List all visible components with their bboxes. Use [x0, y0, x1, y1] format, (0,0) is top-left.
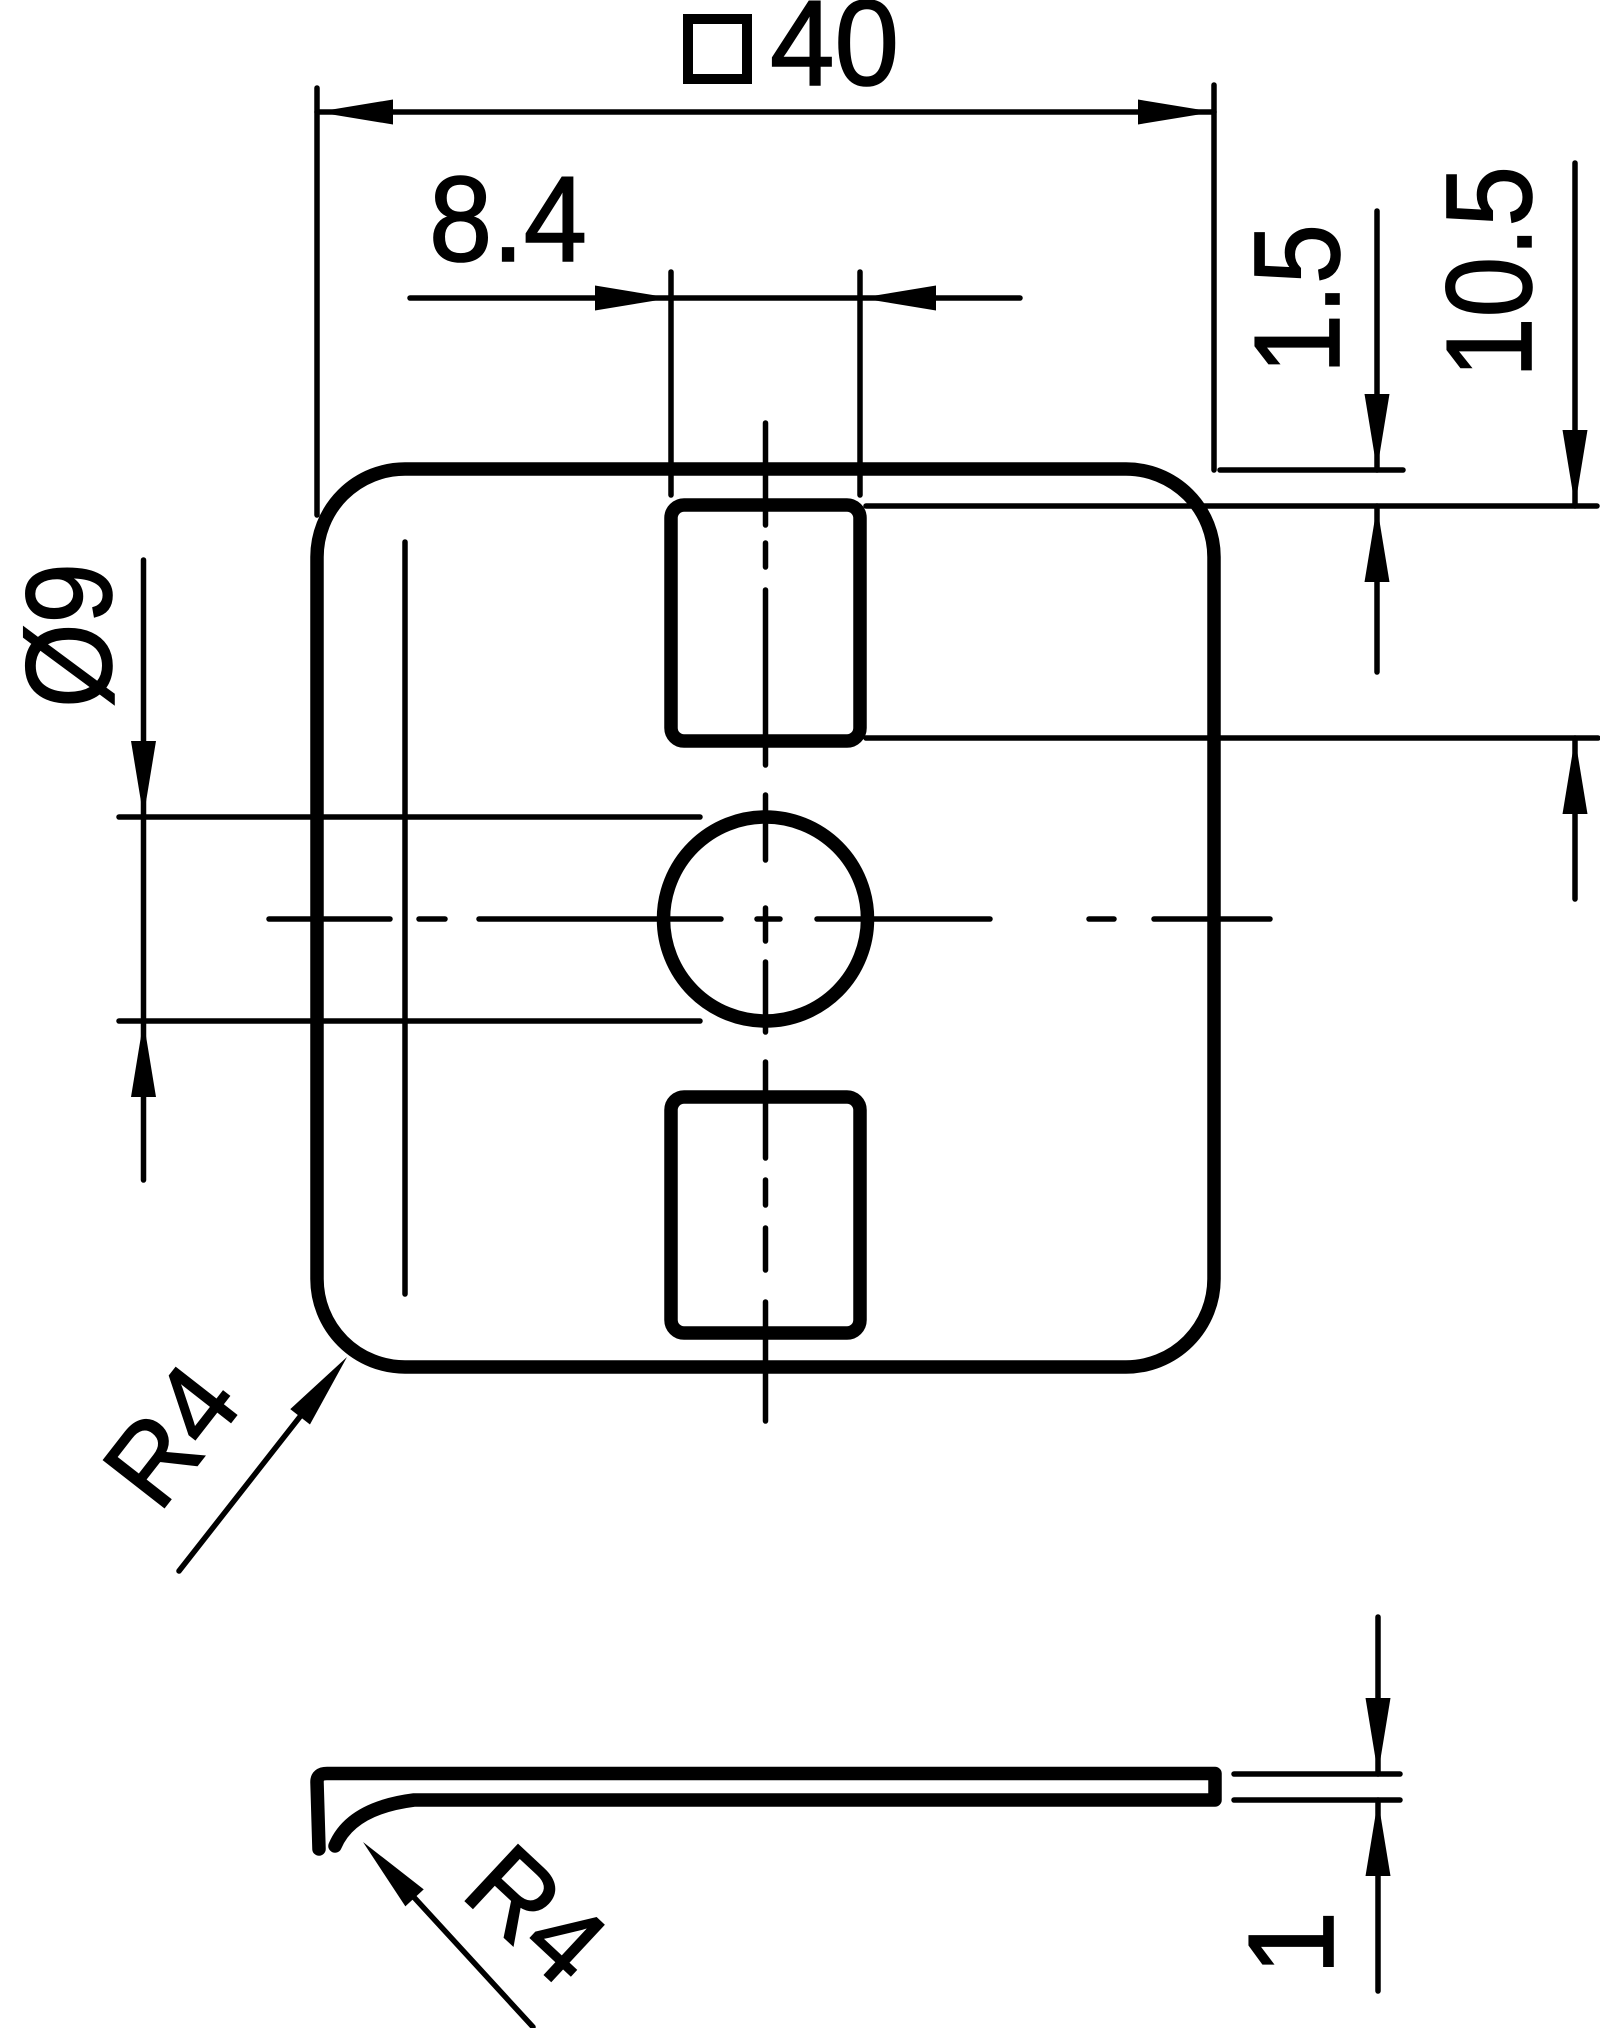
side view profile: [317, 1774, 1215, 1850]
R4 leader arrowhead (side view): [354, 1834, 424, 1907]
dim 10.5: bottom extension line (square bottom): [866, 735, 1598, 741]
dim Ø9: top extension line (tangent): [119, 814, 700, 820]
dim 1.5: lower arrowhead: [1365, 506, 1390, 582]
dim 40: right arrowhead: [1138, 100, 1214, 125]
dim 40: dimension line: [317, 109, 1214, 115]
dim 1: lower arrowhead: [1366, 1800, 1391, 1876]
dim 10.5: middle extension line (square top): [866, 503, 1597, 509]
dim 8.4: right extension line: [857, 272, 863, 495]
dim Ø9: lower arrowhead: [131, 1021, 156, 1097]
bend line (left, thin): [402, 542, 408, 1294]
dim 1: bottom extension line: [1234, 1797, 1400, 1803]
dim 1: lower dimension line: [1375, 1800, 1381, 1991]
svg-text:8.4: 8.4: [429, 151, 587, 287]
dim Ø9: upper arrowhead: [131, 741, 156, 817]
dim 1.5: top extension line: [1220, 467, 1403, 473]
center hole circle Ø9: [664, 817, 868, 1021]
plate outline (front view, rounded square 40x40): [317, 469, 1214, 1367]
dim Ø9: dimension line: [141, 560, 147, 1180]
dim Ø9: bottom extension line (tangent): [119, 1018, 700, 1024]
dim 8.4: left extension line: [668, 272, 674, 495]
R4 leader (front view corner): [179, 1372, 335, 1571]
dim 1.5: upper arrowhead: [1365, 394, 1390, 470]
dim 1.5: upper dimension line: [1374, 211, 1380, 470]
dim 40: left extension line: [314, 88, 320, 515]
svg-text:Ø9: Ø9: [1, 563, 137, 708]
dim 10.5: lower dimension line: [1572, 738, 1578, 899]
dim 1.5: lower dimension line: [1374, 506, 1380, 672]
lower square cutout: [671, 1097, 860, 1333]
svg-text:1.5: 1.5: [1229, 224, 1365, 374]
dim 40: square symbol: [688, 19, 747, 79]
dim 40: left arrowhead: [317, 100, 393, 125]
dim 8.4: right-pointing arrowhead: [595, 286, 671, 311]
vertical centerline: [763, 423, 769, 1421]
dim 8.4: left-pointing arrowhead: [860, 286, 936, 311]
dim 1: upper arrowhead: [1366, 1698, 1391, 1774]
dim 1: top extension line: [1234, 1771, 1400, 1777]
dim 40: right extension line: [1211, 85, 1217, 470]
R4 leader arrowhead: [290, 1349, 357, 1424]
dim 10.5: lower arrowhead: [1563, 738, 1588, 814]
horizontal centerline: [269, 916, 1270, 922]
dim 10.5: upper arrowhead: [1563, 430, 1588, 506]
R4 leader (side view): [377, 1857, 533, 2027]
dim 10.5: upper dimension line: [1572, 163, 1578, 506]
upper square cutout: [671, 505, 860, 741]
svg-text:10.5: 10.5: [1421, 166, 1557, 378]
svg-text:40: 40: [770, 0, 899, 111]
dim 1: upper dimension line: [1375, 1617, 1381, 1774]
svg-text:1: 1: [1223, 1911, 1359, 1975]
dim 8.4: dimension line: [410, 295, 1020, 301]
